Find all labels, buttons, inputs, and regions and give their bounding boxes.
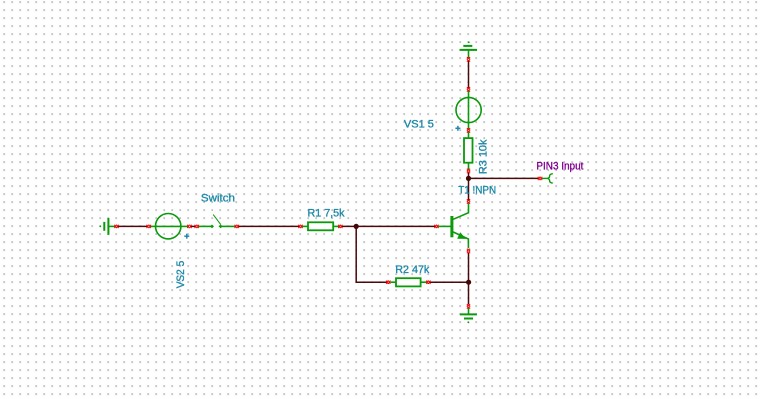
ground GND-bottom	[460, 308, 477, 324]
svg-text:Switch: Switch	[201, 192, 235, 204]
resistor R2	[390, 278, 427, 286]
node C junction	[466, 280, 471, 285]
terminal PIN3	[542, 174, 553, 183]
node marks: ground-left pin	[114, 225, 118, 228]
node marks: T1 emitter pin	[467, 249, 470, 253]
node marks: R3 bottom pin	[467, 169, 470, 173]
node A junction	[466, 176, 471, 181]
wire node A to PIN3 terminal	[471, 177, 539, 179]
wire switch to R1	[238, 225, 299, 227]
node marks: R1 right pin	[338, 225, 342, 228]
voltage source VS1	[456, 91, 481, 129]
node marks: R2 right pin	[426, 281, 430, 284]
node marks: bottom ground pin	[467, 304, 470, 308]
node B junction	[354, 224, 359, 229]
node marks: T1 base pin	[434, 225, 438, 228]
svg-text:T1 !NPN: T1 !NPN	[458, 185, 496, 197]
switch S1	[198, 215, 235, 229]
node marks: VS2 right pin	[187, 225, 191, 228]
wire node C up to emitter	[468, 253, 470, 282]
node marks: switch right pin	[235, 225, 239, 228]
node marks: PIN3 terminal pin	[538, 177, 542, 180]
wire R3 to collector node	[468, 173, 470, 179]
svg-text:R1 7,5k: R1 7,5k	[308, 207, 345, 219]
svg-text:R2 47k: R2 47k	[395, 264, 429, 276]
node marks: VS2 left pin	[147, 225, 151, 228]
wire top ground to VS1	[468, 61, 470, 88]
wire node B down and right to R2	[356, 227, 387, 282]
transistor T1	[438, 203, 468, 248]
node marks: T1 collector pin	[467, 199, 470, 203]
wire node A down to collector	[468, 180, 470, 200]
resistor R1	[302, 222, 339, 230]
svg-text:VS1 5: VS1 5	[404, 119, 434, 131]
wire ground-left to VS2	[118, 225, 148, 227]
resistor R3	[464, 132, 473, 169]
node marks: top ground pin	[467, 57, 470, 61]
ground GND-top	[460, 41, 477, 57]
wire VS2 to switch	[191, 225, 195, 227]
wire node C down to ground	[468, 283, 470, 304]
voltage source VS2	[150, 214, 188, 239]
ground GND-left	[99, 218, 115, 235]
svg-text:R3 10k: R3 10k	[478, 139, 490, 174]
node marks: R2 left pin	[386, 281, 390, 284]
plus sign of VS2	[184, 234, 189, 239]
svg-text:PIN3 Input: PIN3 Input	[536, 160, 583, 172]
wire R1 to base node	[342, 225, 435, 227]
node marks: switch left pin	[195, 225, 199, 228]
wire R2 to emitter node	[430, 281, 469, 283]
pin-end marks (red connection crosses)	[114, 57, 542, 308]
node marks: R1 left pin	[298, 225, 302, 228]
svg-text:VS2 5: VS2 5	[175, 261, 187, 289]
node marks: VS1 bottom pin	[467, 128, 470, 132]
plus sign of VS1	[455, 126, 460, 131]
node marks: VS1 top pin	[467, 87, 470, 91]
